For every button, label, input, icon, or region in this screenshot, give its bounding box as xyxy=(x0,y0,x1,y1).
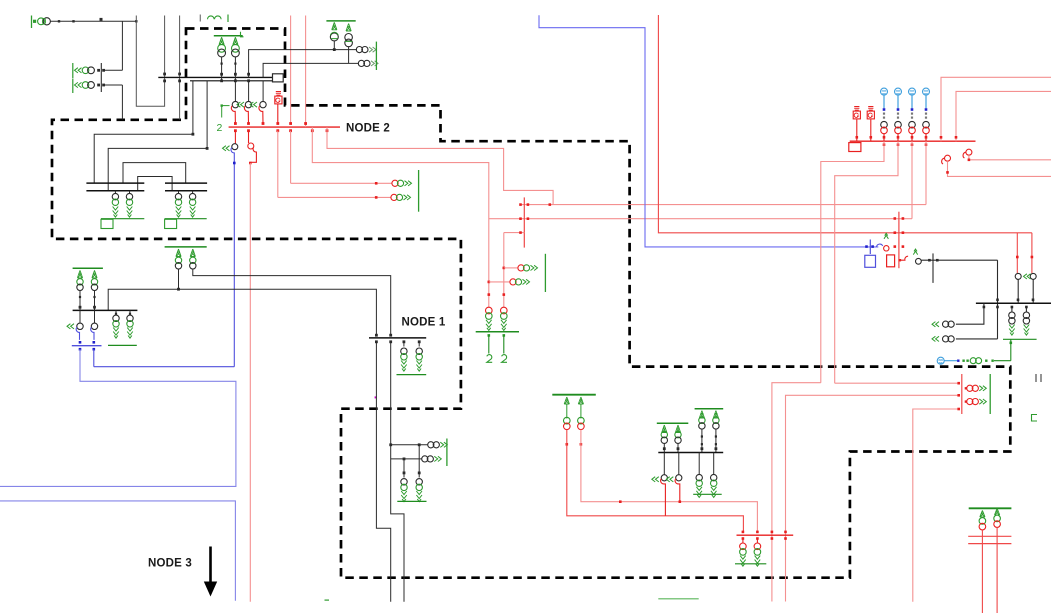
converter dashes x884 xyxy=(883,113,885,115)
feeder x404 transformer xyxy=(403,459,405,478)
exchange wire y176 xyxy=(138,177,172,191)
transformer BC2 x678 xyxy=(675,431,681,437)
breaker circle BK3 xyxy=(260,101,266,107)
branch square x488 y281 xyxy=(488,281,491,284)
green bus WL xyxy=(73,267,103,269)
black bus BC y452 xyxy=(658,452,723,454)
lower breaker LB1 blue tail to blue feeder xyxy=(231,148,234,367)
feeder wire to transformer T-L1 xyxy=(105,69,123,71)
plant feeder x898 west leg xyxy=(835,141,898,383)
junction squares T-L2 xyxy=(97,84,100,87)
BC breaker 1 red tail xyxy=(661,479,666,516)
green bus BC3 xyxy=(695,408,724,410)
NODE 2 red bus xyxy=(229,126,340,128)
breaker circle BK2 xyxy=(245,101,251,107)
bus feeder x997 to transformer TE2 xyxy=(956,338,998,340)
feeder transformer below bus SL x129 xyxy=(129,191,131,194)
west breaker WB2 xyxy=(91,323,97,329)
transformer BC2 x664 xyxy=(661,431,667,437)
green square y342 xyxy=(1010,342,1013,345)
long line y218 red xyxy=(489,218,912,220)
plant feeder x912 to line y218 xyxy=(911,141,913,219)
junction squares x290 xyxy=(289,122,292,125)
long line y204 red xyxy=(521,204,927,206)
transformer WL x94 xyxy=(91,279,97,285)
hvdc blue hook xyxy=(877,244,883,247)
green line below NODE1 feeders xyxy=(397,374,427,376)
wire NE2 to load line xyxy=(348,47,350,64)
breaker circle BK1 xyxy=(232,101,238,107)
wind-park transformer x235 xyxy=(232,44,240,52)
tower feeder ML x192 xyxy=(190,249,195,257)
wire ML-right to line A xyxy=(193,269,391,336)
junction squares x312 x327 xyxy=(311,129,314,132)
NODE1 feeder transformer x419 xyxy=(418,342,420,347)
junction square y501 x620 xyxy=(619,500,622,503)
junction square x263 node2 bus xyxy=(262,122,265,125)
BC breaker 2 red tail xyxy=(675,479,680,502)
converter dashes x926 xyxy=(925,113,927,115)
junction squares x179 at bus B1 xyxy=(178,73,181,76)
outgoing line y159 xyxy=(969,155,1051,160)
red square x580 xyxy=(580,443,583,446)
wire x290 to load line y183 xyxy=(290,131,292,184)
junction squares y204 xyxy=(519,203,522,206)
load line y197 red xyxy=(278,196,391,198)
transformer NE1 xyxy=(330,33,338,41)
feeder wire to transformer T-L2 xyxy=(105,84,123,86)
plant red bus y535 xyxy=(737,534,794,536)
tower feeder BC3 x701 xyxy=(699,411,704,419)
transformer BC1b xyxy=(578,417,585,424)
tower feeder BR2 xyxy=(995,508,1000,515)
black wire x997 south xyxy=(997,260,999,339)
red junction square x250 xyxy=(249,162,252,165)
junction bar x898 xyxy=(898,212,900,269)
hvdc blue bar xyxy=(869,240,871,255)
lower breaker LB2 circle xyxy=(248,143,254,149)
junction squares x164 at bus B1 xyxy=(163,73,166,76)
junction squares x278 xyxy=(276,122,279,125)
wire WL x94 to bus xyxy=(94,291,96,311)
plant gen PG1 xyxy=(854,107,859,111)
tower feeder WL x94 xyxy=(92,270,97,278)
bus feeder x983 to transformer TE1 xyxy=(956,303,984,324)
wind-park transformer x221 xyxy=(218,44,226,52)
blue line from top to east cluster xyxy=(539,15,878,247)
wire V1 x122 lower leg xyxy=(121,85,123,120)
plant gen PG2 drop xyxy=(870,120,872,142)
plant feeder transformer x742 xyxy=(742,539,744,543)
tower feeder BC2 x664 xyxy=(662,425,667,433)
feeder x419 transformer xyxy=(418,445,420,478)
unit connection squares x926 xyxy=(925,134,927,142)
wire BC3 x701 to bus xyxy=(701,429,703,452)
wind-park tower x235 xyxy=(233,37,238,45)
wire ML-left to line B xyxy=(178,269,180,289)
branch square x503 y267 xyxy=(503,267,506,270)
NODE 3 arrow xyxy=(209,547,212,586)
tower feeder BC1a xyxy=(564,397,569,404)
green bus ML xyxy=(165,246,207,248)
east long line y395 corner xyxy=(786,395,959,601)
svg-text:2: 2 xyxy=(217,122,223,134)
junction square y501 x679 xyxy=(679,500,682,503)
BC breaker 1 xyxy=(663,453,665,475)
east line y383 to bar xyxy=(835,382,959,384)
exchange wire y162 xyxy=(123,163,186,184)
generator S1 drop wire xyxy=(277,104,279,124)
wire NE1 to load line xyxy=(333,41,335,50)
breaker feeder x235 lower xyxy=(234,81,236,102)
plant gen PG2 xyxy=(868,107,873,111)
incoming line y77 from east xyxy=(941,77,1051,141)
long red feeder x290 from top xyxy=(290,16,292,124)
load box green SR xyxy=(165,219,177,228)
step-down transformer x488 xyxy=(486,307,493,314)
wire x207 from bus B2 down-left xyxy=(108,81,207,191)
west breaker WB2 blue tail xyxy=(91,327,94,340)
transformer BR1 xyxy=(979,518,986,525)
bus feeder x1026 transformer xyxy=(1025,307,1027,312)
hvdc green arrow up xyxy=(884,233,888,239)
green collector line y339 xyxy=(1003,338,1037,340)
wind-park tower x221 xyxy=(219,37,224,45)
breaker feeder x248 xyxy=(248,81,250,102)
load LD-A transformer and arrow xyxy=(391,194,397,200)
drop x1017 to breaker xyxy=(1016,233,1018,273)
red link x566 to plant south xyxy=(567,430,744,532)
transformer ML x192 xyxy=(190,257,196,263)
transformer BC3 x701 xyxy=(699,417,705,423)
blue feeder corner to west xyxy=(94,366,235,368)
breaker E2 drop to bus xyxy=(1032,279,1034,303)
transformer T-L1 with terminal bar xyxy=(72,63,74,78)
load LD-C transformer and arrow xyxy=(518,265,524,271)
tower feeder NE2 xyxy=(346,24,351,32)
junction squares y294 xyxy=(488,293,491,296)
wind turbine stem x912 xyxy=(911,95,913,108)
transformer NE2 xyxy=(345,34,353,42)
breaker BK1 red tail xyxy=(231,106,235,124)
line B west leg xyxy=(108,289,376,335)
bus B1 upper xyxy=(158,76,272,78)
wire BC2 x678 to bus xyxy=(677,443,679,452)
wind turbine stem x898 xyxy=(897,95,899,108)
green riser x1010 xyxy=(1010,339,1012,360)
junction bar x524 xyxy=(523,197,525,247)
trunk east x390 south xyxy=(391,342,404,602)
unit connection squares x898 xyxy=(897,134,899,142)
tower feeder BC1b xyxy=(578,397,583,404)
bus tick bar x101 xyxy=(100,63,102,92)
branch wire to load LD-D xyxy=(489,281,510,283)
lower breaker LB1 circle xyxy=(232,144,238,150)
generator G-TL circles xyxy=(38,18,45,25)
wire V1 x122 upper xyxy=(121,21,123,70)
tower feeder WL x80 xyxy=(77,270,82,278)
green line below BC feeders xyxy=(693,493,722,495)
transformer BC1a xyxy=(564,417,571,424)
green bus BC2 xyxy=(657,422,689,424)
west bus black y310 xyxy=(73,309,138,311)
wire x278 down to load line y197 xyxy=(277,131,279,198)
black bar x933 xyxy=(932,253,934,283)
east load EL1 xyxy=(965,387,967,389)
blue line 2 off west xyxy=(0,501,235,601)
plant bus y141 red xyxy=(850,140,976,142)
svg-text:NODE 2: NODE 2 xyxy=(346,123,390,135)
blue squares above dc bus xyxy=(79,341,82,344)
load SW1 transformer arrow xyxy=(428,442,434,448)
unit connection squares x912 xyxy=(911,134,913,142)
load line NE y49 xyxy=(249,50,357,78)
wind-park feeder wire x235 xyxy=(234,57,236,81)
junction squares y218 xyxy=(519,217,522,220)
wind turbine WT x884 xyxy=(881,88,888,95)
cut green mark x240 xyxy=(241,32,244,37)
branch y458 to load SW2 xyxy=(391,458,422,460)
outgoing breaker OB1 xyxy=(945,155,951,161)
tie line A x327 east xyxy=(327,127,553,205)
east black bus y303 xyxy=(976,302,1051,304)
plant aux box red xyxy=(849,143,861,152)
svg-text:NODE 3: NODE 3 xyxy=(148,558,192,570)
green collector bus N2 xyxy=(214,35,243,37)
transformer T-L2 with terminal bar xyxy=(72,79,74,94)
load SW2 transformer arrow xyxy=(422,456,428,462)
east red bar x961 xyxy=(961,374,963,414)
junction squares x249 xyxy=(247,73,250,76)
junction dot x193 xyxy=(192,133,195,136)
green feeder x503 with 2-glyph xyxy=(503,335,505,353)
wind turbine WT x898 xyxy=(895,88,902,95)
outgoing line y176 xyxy=(948,161,1051,176)
junction squares y232 east xyxy=(894,231,897,234)
green bus NE xyxy=(326,20,355,22)
west breaker WB1 xyxy=(77,323,83,329)
west breaker WB1 blue tail xyxy=(76,327,79,340)
east long line y382 corner xyxy=(772,383,821,602)
blue link x93 to east riser xyxy=(93,349,95,367)
transformer ML x178 xyxy=(175,257,181,263)
hvdc blue box xyxy=(865,255,876,267)
red square x566 xyxy=(566,443,569,446)
substation bus SR (double) xyxy=(165,182,207,184)
junction dots on L1 xyxy=(58,20,60,22)
tower feeder BC3 x715 xyxy=(713,411,718,419)
branch y444 to load SW1 xyxy=(391,444,428,446)
tower feeder BC2 x678 xyxy=(675,425,680,433)
green squares below bus xyxy=(488,334,491,337)
transformer BC3 x715 xyxy=(713,417,719,423)
wind generator row xyxy=(937,357,944,364)
feeder x503 south xyxy=(503,233,505,307)
BR riser 2 xyxy=(996,527,998,613)
bus B2 lower xyxy=(190,80,273,82)
drop x1031 to breaker xyxy=(1031,233,1033,273)
junction squares T-L1 xyxy=(97,69,100,72)
green line below plant feeders xyxy=(735,563,766,565)
BC breaker 2 xyxy=(678,453,680,475)
unit transformer x912 xyxy=(909,121,916,128)
magenta marker xyxy=(375,396,377,398)
red box below bar xyxy=(887,255,895,267)
step-down transformer x503 xyxy=(501,307,508,314)
breaker circle E2 with green mark xyxy=(1030,273,1036,279)
BC feeder transformer x699 xyxy=(698,453,700,475)
wind turbine stem x926 xyxy=(925,95,927,108)
terminal bar green LD-C/D xyxy=(544,254,546,292)
BR red line 2 xyxy=(968,543,1011,545)
legend ticks right edge xyxy=(1035,374,1037,382)
green measurement tap with 2 label xyxy=(221,104,223,106)
generator G-TL terminal bar xyxy=(31,16,33,29)
tie line B x312 east xyxy=(312,127,489,307)
long red feeder x250 to bottom xyxy=(249,163,251,602)
plant feeder x926 to line y204 xyxy=(925,141,927,204)
generator S1 red glyph xyxy=(276,92,281,96)
svg-text:NODE 1: NODE 1 xyxy=(402,317,446,329)
feeder transformer below bus SR x192 xyxy=(192,191,194,194)
load line y183 red xyxy=(291,182,392,184)
wire BC2 x664 to bus xyxy=(663,443,665,452)
wire x248 to lower breaker xyxy=(248,131,250,143)
tower feeder NE1 xyxy=(332,22,337,30)
unit transformer x898 xyxy=(895,121,902,128)
station load box on bus B1/B2 xyxy=(273,74,284,82)
BC feeder transformer x713 xyxy=(713,453,715,475)
west transformers below bus y310 xyxy=(115,310,117,313)
BR riser 1 xyxy=(981,530,983,613)
breaker BK3 red tail xyxy=(259,106,263,124)
substation bus SL (double) xyxy=(86,182,144,184)
tower feeder ML x178 xyxy=(176,249,181,257)
hvdc junction squares xyxy=(894,245,897,248)
transformer TE1 xyxy=(943,321,949,327)
tower feeder BR1 xyxy=(980,510,985,517)
tie breaker circle black xyxy=(916,258,922,264)
long red feeder x305 from top xyxy=(305,16,307,128)
load LD-D transformer and arrow xyxy=(510,279,516,285)
BR red line 1 xyxy=(968,535,1011,537)
junction squares y260 xyxy=(928,259,931,262)
wind turbine stem x884 xyxy=(883,95,885,108)
wire WL x80 to bus xyxy=(79,291,81,311)
load group terminal bar green xyxy=(418,170,420,212)
converter dashes x912 xyxy=(911,113,913,115)
transformer WL x80 xyxy=(77,279,83,285)
tie breaker red curl xyxy=(899,256,908,260)
wire x193 from bus B2 down-left to left substation xyxy=(94,81,193,183)
feeder transformer below bus SR x178 xyxy=(178,191,180,194)
load LD-B transformer and arrow xyxy=(392,180,398,186)
breaker feeder x263 xyxy=(262,81,264,102)
distribution line green SR xyxy=(165,218,207,220)
east line y409 from x912 xyxy=(913,409,959,602)
terminal bar NE green xyxy=(375,42,377,70)
wind-park feeder wire x221 xyxy=(221,57,223,81)
transformer BR2 xyxy=(994,515,1001,522)
red line x658 to east xyxy=(658,15,1032,233)
tie green arrow up xyxy=(913,249,917,255)
hvdc blue squares xyxy=(865,245,868,248)
plant gen PG1 drop xyxy=(856,120,858,142)
wire U-loop x136-x164 xyxy=(136,16,164,107)
NODE1 bus junction squares xyxy=(375,334,378,337)
blue link x80 south loop xyxy=(0,349,236,486)
junction squares x248 node2 bus xyxy=(247,122,250,125)
junction squares x235 node2 bus xyxy=(234,122,237,125)
generator G-TL connector dot xyxy=(33,20,36,23)
wire x235 to lower breaker xyxy=(234,131,236,144)
bus feeder x1011 transformer xyxy=(1011,307,1013,312)
incoming line y91 from east xyxy=(956,91,1051,141)
bus junction squares y303 xyxy=(996,299,999,302)
wind turbine WT x926 xyxy=(923,88,930,95)
load NE-2 circles arrow xyxy=(358,60,364,66)
wind turbine WT x912 xyxy=(909,88,916,95)
green line below SW feeders xyxy=(397,500,426,502)
load line NE y63 xyxy=(263,63,359,77)
unit transformer x926 xyxy=(923,121,930,128)
junction dot x207 xyxy=(206,147,209,150)
green bus NODE1-east xyxy=(476,331,519,333)
unit transformer x884 xyxy=(881,121,888,128)
plant bus junction squares xyxy=(742,531,745,534)
east terminal bar green xyxy=(989,374,991,414)
load NE-1 circles arrow xyxy=(356,47,362,53)
green line y598 bottom xyxy=(658,598,698,600)
plant feeder x884 west leg xyxy=(821,141,884,383)
distribution line green SL xyxy=(101,218,144,220)
NODE1 bus black xyxy=(369,337,426,339)
branch wire to load LD-C xyxy=(504,267,518,269)
green line below west transformers xyxy=(108,344,137,346)
NODE1 feeder transformer x403 xyxy=(403,342,405,347)
red link x580 to plant south xyxy=(581,430,758,532)
blue squares below dc bus xyxy=(79,348,82,351)
breaker BK2 red tail xyxy=(244,106,248,124)
converter dashes x898 xyxy=(897,113,899,115)
terminal bar green SW xyxy=(446,439,448,467)
cut symbol group top xyxy=(199,15,201,22)
wire L1 top-left horizontal xyxy=(50,20,136,22)
stub y232 to bar xyxy=(504,232,525,234)
dc bus blue xyxy=(72,345,102,347)
breaker circle E1 xyxy=(1015,273,1021,279)
wire vertical x179 xyxy=(179,16,181,120)
east load EL2 xyxy=(965,400,967,402)
hvdc red circle xyxy=(884,246,889,251)
green small marker bottom xyxy=(325,599,330,601)
blue junction square x234 xyxy=(233,162,236,165)
wire BC3 x715 to bus xyxy=(715,429,717,452)
load box green SL xyxy=(101,219,113,228)
trunk west x376 south xyxy=(376,342,390,602)
outgoing breaker OB2 xyxy=(966,149,972,155)
green feeder x488 with 2-glyph xyxy=(488,335,490,353)
green bus BC1 xyxy=(552,394,596,396)
breaker E1 drop to bus xyxy=(1017,279,1019,303)
black wire y260 east xyxy=(921,259,997,261)
plant feeder transformer x757 xyxy=(756,539,758,543)
transformer TE2 xyxy=(943,336,949,342)
unit connection squares x884 xyxy=(883,134,885,142)
lower breaker LB2 red tail xyxy=(250,148,256,163)
feeder transformer below bus SL x115 xyxy=(114,191,116,194)
green bus BR xyxy=(969,507,1012,509)
